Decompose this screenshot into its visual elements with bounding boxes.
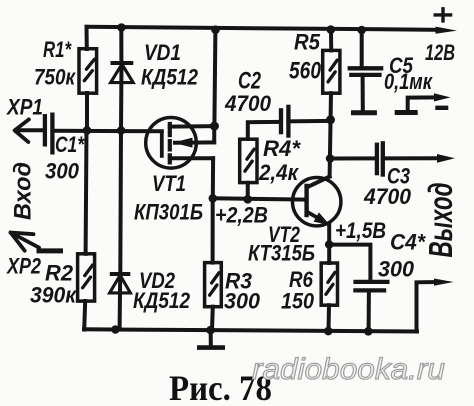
svg-text:12В: 12В (425, 40, 455, 65)
svg-text:R4*: R4* (263, 136, 301, 161)
svg-text:750к: 750к (34, 65, 77, 90)
svg-text:300: 300 (45, 159, 80, 184)
svg-text:R5: R5 (294, 30, 321, 55)
svg-text:300: 300 (378, 257, 415, 282)
svg-text:КД512: КД512 (133, 288, 191, 313)
svg-text:КП301Б: КП301Б (134, 200, 203, 225)
svg-text:КТ315Б: КТ315Б (248, 241, 315, 266)
svg-text:КД512: КД512 (141, 65, 199, 90)
svg-text:560: 560 (289, 58, 322, 85)
svg-text:XP1: XP1 (5, 95, 43, 120)
svg-text:Вход: Вход (10, 162, 37, 220)
svg-text:150: 150 (281, 289, 315, 314)
svg-text:C1*: C1* (55, 132, 85, 157)
svg-text:2,4к: 2,4к (258, 160, 300, 185)
svg-text:+1,5В: +1,5В (335, 218, 386, 243)
svg-text:VT1: VT1 (152, 171, 186, 196)
svg-text:R1*: R1* (43, 37, 72, 62)
svg-text:radiobooka.ru: radiobooka.ru (252, 353, 445, 386)
svg-text:4700: 4700 (363, 184, 412, 209)
svg-text:390к: 390к (30, 283, 78, 308)
svg-text:Выход: Выход (422, 183, 459, 258)
svg-text:4700: 4700 (224, 91, 272, 116)
svg-text:0,1мк: 0,1мк (384, 69, 434, 94)
svg-text:C4*: C4* (390, 230, 426, 255)
svg-text:VD1: VD1 (144, 40, 181, 65)
svg-text:XP2: XP2 (5, 254, 41, 279)
svg-text:300: 300 (224, 289, 261, 314)
svg-text:+2,2В: +2,2В (215, 203, 268, 228)
